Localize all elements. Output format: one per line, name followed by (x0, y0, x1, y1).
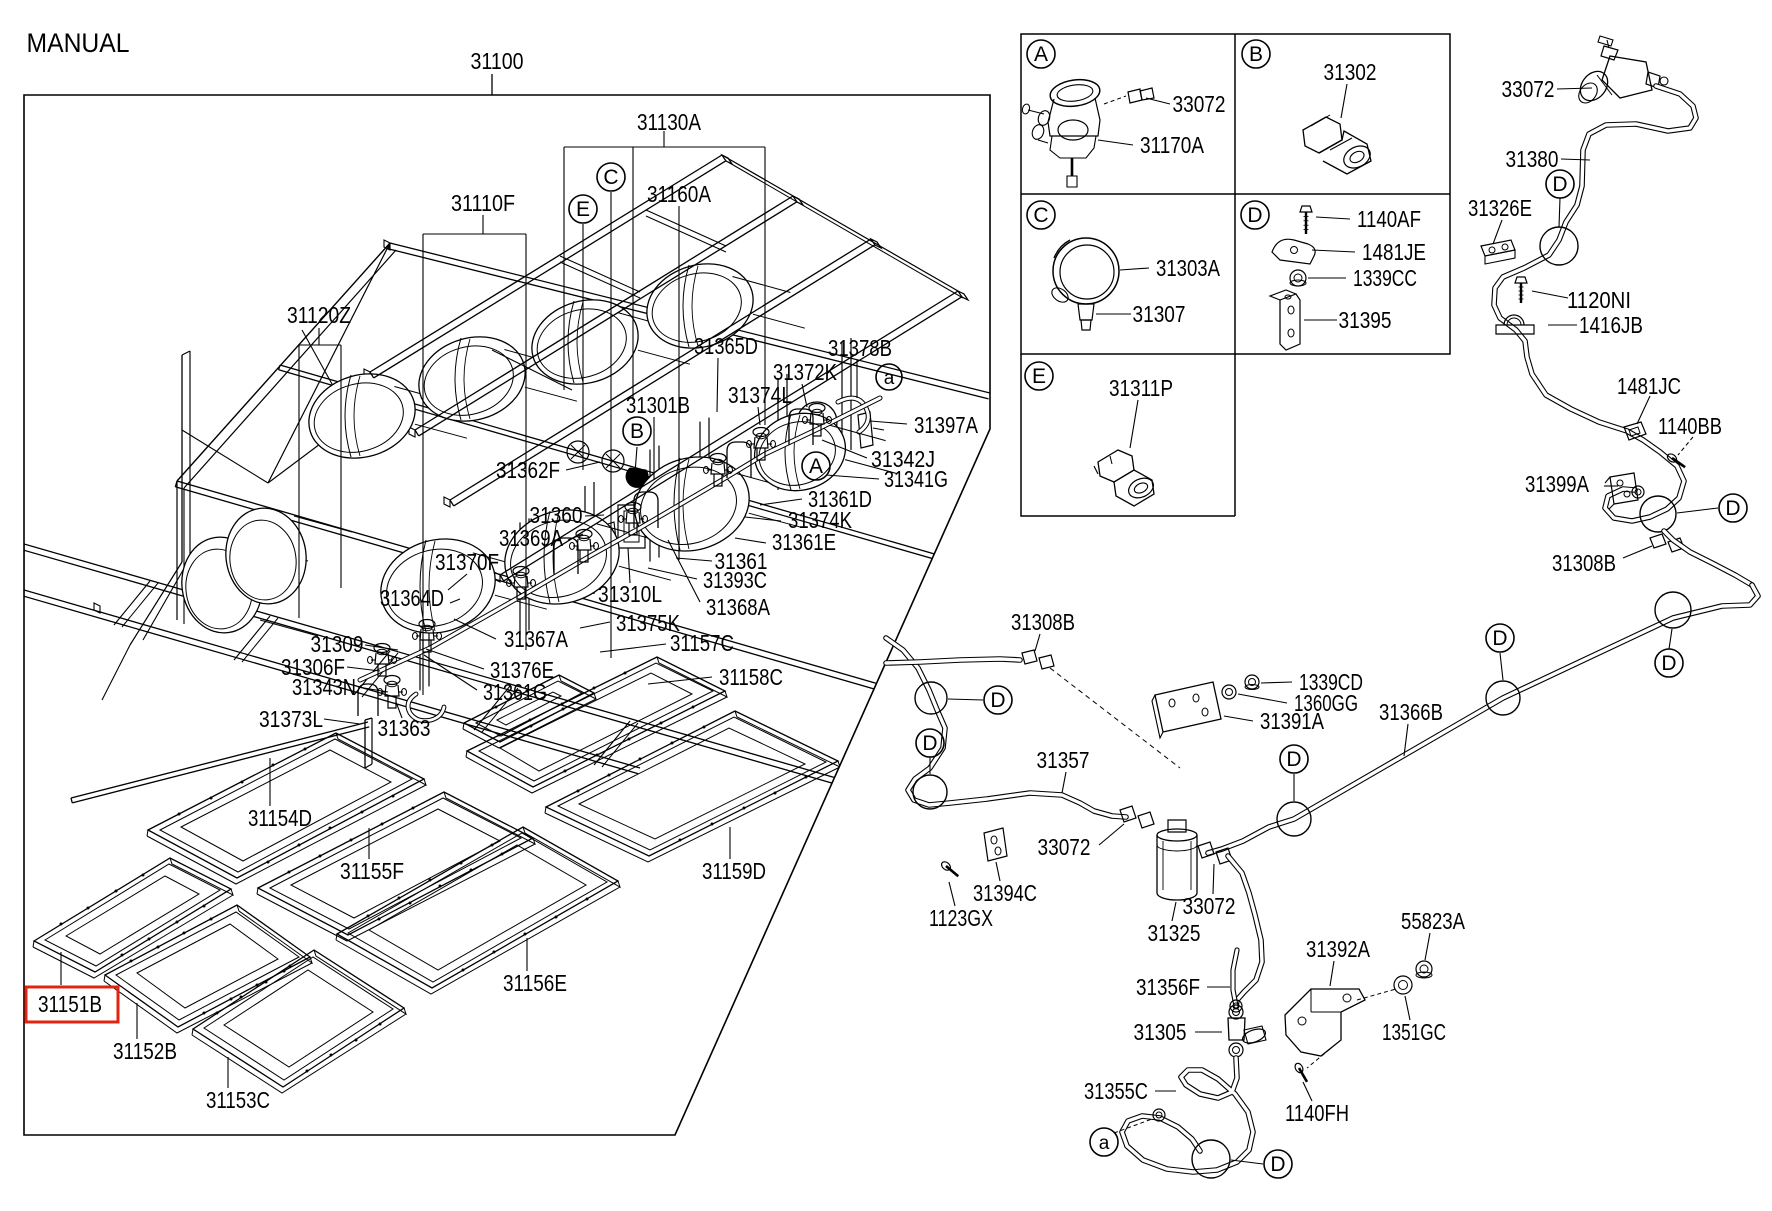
circled D below (1655, 649, 1683, 677)
svg-text:C: C (603, 166, 618, 189)
left truss front leg (177, 243, 390, 481)
circled letter a small (876, 364, 902, 390)
svg-text:1123GX: 1123GX (929, 905, 993, 931)
detail circle junction (1277, 802, 1311, 836)
svg-text:1140BB: 1140BB (1658, 413, 1722, 439)
pipe loop near a (838, 398, 868, 432)
CNG tank left pair b (220, 503, 313, 609)
top face cross member 3 (492, 350, 572, 390)
floor cross members (114, 581, 150, 625)
svg-text:D: D (1725, 497, 1740, 520)
rear truss brace (182, 430, 268, 483)
circled letter C (597, 163, 625, 191)
svg-text:31157C: 31157C (670, 630, 734, 656)
detail table grid (1021, 34, 1450, 354)
tank valve 7 (753, 428, 769, 437)
CNG tank left pair a (176, 532, 269, 638)
svg-text:MANUAL: MANUAL (27, 28, 130, 58)
fitting 31308B right (1650, 534, 1666, 548)
cell letter B (1242, 40, 1270, 68)
bracket 31397A part (858, 412, 873, 448)
rail left end caps (18, 541, 24, 551)
fuel pipe 31380 (1494, 86, 1696, 521)
tank valve 8 (809, 404, 825, 413)
tank valve 3 (513, 567, 529, 576)
svg-text:31361G: 31361G (483, 679, 547, 705)
svg-text:B: B (1249, 43, 1263, 66)
u-bracket 4 (554, 538, 578, 574)
detail circle around valve 31372K (797, 402, 837, 442)
svg-text:31308B: 31308B (1552, 550, 1616, 576)
frame beam 3 (450, 239, 871, 500)
coupling 31302 drawing (1303, 117, 1342, 153)
svg-text:55823A: 55823A (1401, 908, 1465, 934)
valve 31305 (1229, 1005, 1243, 1019)
top face cross member 2 (646, 210, 726, 246)
svg-text:E: E (576, 198, 590, 221)
mount post x778 (777, 378, 779, 490)
top face cross member 1 (560, 256, 640, 292)
detail circle on 31380 (1540, 227, 1578, 265)
rail 31373L short (71, 722, 368, 798)
circled D right (1719, 494, 1747, 522)
bracket 31326E (1481, 240, 1515, 256)
detail circle on 31355C (1192, 1140, 1230, 1178)
cell letter C (1027, 201, 1055, 229)
svg-text:33072: 33072 (1038, 834, 1091, 860)
truss braces (268, 243, 390, 483)
svg-text:31307: 31307 (1133, 301, 1186, 327)
svg-text:D: D (1286, 748, 1301, 771)
CNG tank rear row 2 (409, 325, 535, 434)
svg-text:33072: 33072 (1173, 91, 1226, 117)
leader lines left drawing (663, 131, 665, 147)
valve 31170A drawing (1048, 77, 1101, 110)
frame beam 2 (415, 196, 793, 430)
svg-text:31341G: 31341G (884, 466, 948, 492)
pipe 31355C loop (1122, 1058, 1253, 1172)
bracket 31392A (1285, 989, 1365, 1056)
svg-text:31392A: 31392A (1306, 936, 1370, 962)
bolt 1140AF drawing (1300, 206, 1312, 212)
circled a bottom (1090, 1128, 1118, 1156)
filter 31325 (1168, 820, 1186, 832)
svg-text:1351GC: 1351GC (1382, 1019, 1446, 1045)
screw 1123GX (940, 860, 952, 872)
apex v-rail (390, 243, 990, 393)
svg-text:1481JC: 1481JC (1617, 373, 1681, 399)
truss base posts (176, 481, 178, 620)
dark gauge near B (626, 468, 648, 487)
fitting 33072 on 31357 (1120, 806, 1136, 822)
mount post x700 (699, 422, 701, 534)
svg-text:31159D: 31159D (702, 858, 766, 884)
circled D mid (1486, 624, 1514, 652)
svg-text:31357: 31357 (1037, 747, 1090, 773)
svg-text:31155F: 31155F (340, 858, 404, 884)
mount post x420 (419, 578, 421, 690)
circled D 31357 b (916, 729, 944, 757)
pipe 31308B left stub (886, 659, 1020, 663)
svg-text:31158C: 31158C (719, 664, 783, 690)
svg-text:D: D (1552, 173, 1567, 196)
fitting 31311P drawing (1098, 450, 1134, 482)
rear truss flare (130, 562, 182, 645)
svg-text:31170A: 31170A (1140, 132, 1204, 158)
tank valve 4 (576, 530, 592, 539)
nut 1339CD (1245, 675, 1259, 689)
svg-text:D: D (1492, 627, 1507, 650)
tank valve 6 (710, 454, 726, 463)
circled letter B (623, 417, 651, 445)
svg-text:C: C (1033, 204, 1048, 227)
floor rail F2 (24, 590, 640, 768)
pipe 31357 from left (886, 638, 1126, 817)
panel 31154D (148, 733, 424, 878)
svg-text:31303A: 31303A (1156, 255, 1220, 281)
svg-text:31367A: 31367A (504, 626, 568, 652)
tank manifold pipe (360, 398, 880, 680)
panel 31159D (546, 711, 838, 856)
svg-text:31308B: 31308B (1011, 609, 1075, 635)
svg-text:31151B: 31151B (38, 991, 102, 1017)
svg-text:31364D: 31364D (380, 585, 444, 611)
svg-text:31380: 31380 (1506, 146, 1559, 172)
bracket 31395 drawing (1280, 294, 1300, 350)
highlight label 31151B (26, 987, 118, 1022)
svg-text:31362F: 31362F (496, 457, 560, 483)
svg-text:B: B (630, 420, 644, 443)
CNG tank rear row 1 (299, 362, 425, 471)
svg-text:1140AF: 1140AF (1357, 206, 1421, 232)
panel 31156E (337, 827, 618, 988)
valve cluster lower-left (384, 676, 400, 685)
fitting 33072 right of filter (1198, 842, 1214, 858)
valve symbol small b (602, 450, 624, 472)
cell letter A (1027, 40, 1055, 68)
screw 1140BB (1666, 452, 1678, 463)
svg-text:31356F: 31356F (1136, 974, 1200, 1000)
mount post x842 (841, 342, 843, 454)
bracket 31399A (1610, 473, 1638, 504)
u-bracket 1 (634, 492, 658, 528)
assembly box 31100 border (24, 95, 990, 1135)
fitting 31307 drawing (1078, 304, 1094, 320)
svg-text:E: E (1032, 365, 1046, 388)
hose 31356F (1233, 950, 1237, 1006)
floor rail F1 (24, 544, 850, 782)
mount post x585 (584, 486, 586, 598)
svg-text:31361E: 31361E (772, 529, 836, 555)
svg-text:D: D (990, 689, 1005, 712)
tank valve 5 (625, 503, 641, 512)
svg-text:D: D (1661, 652, 1676, 675)
svg-text:1416JB: 1416JB (1579, 312, 1643, 338)
svg-text:31397A: 31397A (914, 412, 978, 438)
pipe loop 31363 (408, 694, 444, 721)
CNG tank rear row 3 (522, 288, 648, 397)
svg-text:31373L: 31373L (259, 706, 323, 732)
svg-text:31343N: 31343N (292, 674, 356, 700)
tank valve 2 (419, 620, 435, 629)
panel 31158C (467, 657, 725, 787)
circled D bottom (1264, 1150, 1292, 1178)
detail circle on 31357 a (915, 682, 947, 714)
detail circle lower right (1640, 496, 1676, 532)
svg-text:1339CD: 1339CD (1299, 669, 1363, 695)
rear truss posts (181, 355, 183, 562)
circled letter A (802, 452, 830, 480)
bracket 31369A plate (596, 522, 618, 562)
svg-text:1140FH: 1140FH (1285, 1100, 1349, 1126)
circled letter E (569, 195, 597, 223)
svg-text:31154D: 31154D (248, 805, 312, 831)
svg-text:31378B: 31378B (828, 335, 892, 361)
svg-text:31394C: 31394C (973, 880, 1037, 906)
svg-text:31156E: 31156E (503, 970, 567, 996)
cell letter D (1241, 201, 1269, 229)
svg-text:31399A: 31399A (1525, 471, 1589, 497)
svg-text:31311P: 31311P (1109, 375, 1173, 401)
detail circle on 31366B top (1655, 592, 1691, 628)
nut 55823A (1416, 961, 1432, 977)
svg-text:1120NI: 1120NI (1567, 287, 1631, 313)
svg-text:31395: 31395 (1339, 307, 1392, 333)
nut 1360GG (1222, 685, 1236, 699)
tank valve 1 (374, 644, 390, 653)
svg-text:31325: 31325 (1148, 920, 1201, 946)
circled D top right (1546, 170, 1574, 198)
svg-text:31160A: 31160A (647, 181, 711, 207)
clip 1481JC (1624, 422, 1646, 440)
svg-text:1481JE: 1481JE (1362, 239, 1426, 265)
svg-text:31363: 31363 (378, 715, 431, 741)
svg-text:31393C: 31393C (703, 567, 767, 593)
u-bracket 3 (789, 409, 813, 445)
dashed links 31392A (1357, 989, 1396, 1000)
svg-text:31310L: 31310L (598, 581, 662, 607)
svg-text:31110F: 31110F (451, 190, 515, 216)
bolt 1120NI (1515, 277, 1527, 283)
mount post x650 (649, 450, 651, 562)
svg-text:31305: 31305 (1134, 1019, 1187, 1045)
clamp 1416JB (1496, 325, 1534, 334)
svg-text:31301B: 31301B (626, 392, 690, 418)
CNG tank rear row 4 (637, 252, 763, 361)
svg-text:a: a (884, 368, 895, 389)
fitting 31308B left (1022, 650, 1037, 664)
svg-text:31355C: 31355C (1084, 1078, 1148, 1104)
circled D 31357 a (984, 686, 1012, 714)
bracket 31391A (1155, 682, 1221, 732)
clamp ring 31303A drawing (1053, 238, 1119, 304)
v-rail mid (280, 365, 990, 570)
panel 31155F (258, 792, 533, 935)
svg-text:31100: 31100 (471, 48, 524, 74)
small bracket 31360 frame (618, 505, 645, 548)
svg-text:31369A: 31369A (499, 525, 563, 551)
fitting at pipe end near 31399A (1632, 486, 1644, 498)
svg-text:31153C: 31153C (206, 1087, 270, 1113)
right end edge of top face (722, 155, 958, 291)
u-bracket 2 (727, 442, 751, 478)
pipe from circle to lower right (1664, 531, 1752, 585)
circled D junction (1280, 745, 1308, 773)
svg-text:31120Z: 31120Z (287, 302, 351, 328)
frame beam 4 (500, 291, 958, 575)
svg-text:31152B: 31152B (113, 1038, 177, 1064)
cell letter E (1025, 362, 1053, 390)
svg-text:31326E: 31326E (1468, 195, 1532, 221)
screw 1140FH (1293, 1062, 1304, 1074)
svg-text:31302: 31302 (1324, 59, 1377, 85)
apex cap (384, 240, 390, 250)
solenoid valve 33072 top right (1602, 56, 1652, 98)
svg-text:D: D (1270, 1153, 1285, 1176)
svg-text:1339CC: 1339CC (1353, 265, 1417, 291)
nut 1339CC drawing (1290, 270, 1306, 286)
mount post x520 (519, 522, 521, 634)
clamp 1481JE drawing (1272, 239, 1315, 264)
panel 31151B (34, 858, 231, 972)
fitting 33072 in cell A (1128, 89, 1142, 103)
panel 31152B (105, 905, 310, 1027)
svg-text:31368A: 31368A (706, 594, 770, 620)
v-rail near (177, 481, 920, 696)
detail circle on 31357 b (913, 775, 947, 809)
svg-text:A: A (1034, 43, 1048, 66)
svg-text:31130A: 31130A (637, 109, 701, 135)
frame beam 1 (370, 155, 722, 372)
nut 1351GC (1394, 976, 1412, 994)
floor rail left ends (23, 544, 25, 590)
long pipe 31366B (1208, 585, 1758, 853)
svg-text:31370F: 31370F (435, 549, 499, 575)
svg-text:33072: 33072 (1183, 893, 1236, 919)
panel 31153C (193, 950, 404, 1087)
svg-text:31365D: 31365D (694, 333, 758, 359)
detail circle on 31366B mid (1486, 681, 1520, 715)
pipe from filter to valve 31305 (1228, 856, 1262, 1006)
CNG tank front row 1 (370, 526, 507, 646)
bracket 31394C (984, 828, 1007, 861)
CNG tank front row last (745, 403, 854, 501)
svg-text:D: D (1247, 204, 1262, 227)
svg-text:a: a (1099, 1133, 1110, 1154)
svg-text:31366B: 31366B (1379, 699, 1443, 725)
panel 31157C (464, 675, 594, 742)
hidden pipe dashed (1050, 668, 1180, 768)
svg-text:D: D (922, 732, 937, 755)
rail end post (364, 720, 366, 768)
CNG tank front row 2 (494, 497, 631, 617)
svg-text:33072: 33072 (1502, 76, 1555, 102)
nut on 31355C (1153, 1109, 1165, 1121)
svg-text:A: A (809, 455, 823, 478)
CNG tank front row 3 (624, 444, 761, 564)
svg-text:31374L: 31374L (728, 382, 792, 408)
valve symbol small a (567, 441, 589, 463)
